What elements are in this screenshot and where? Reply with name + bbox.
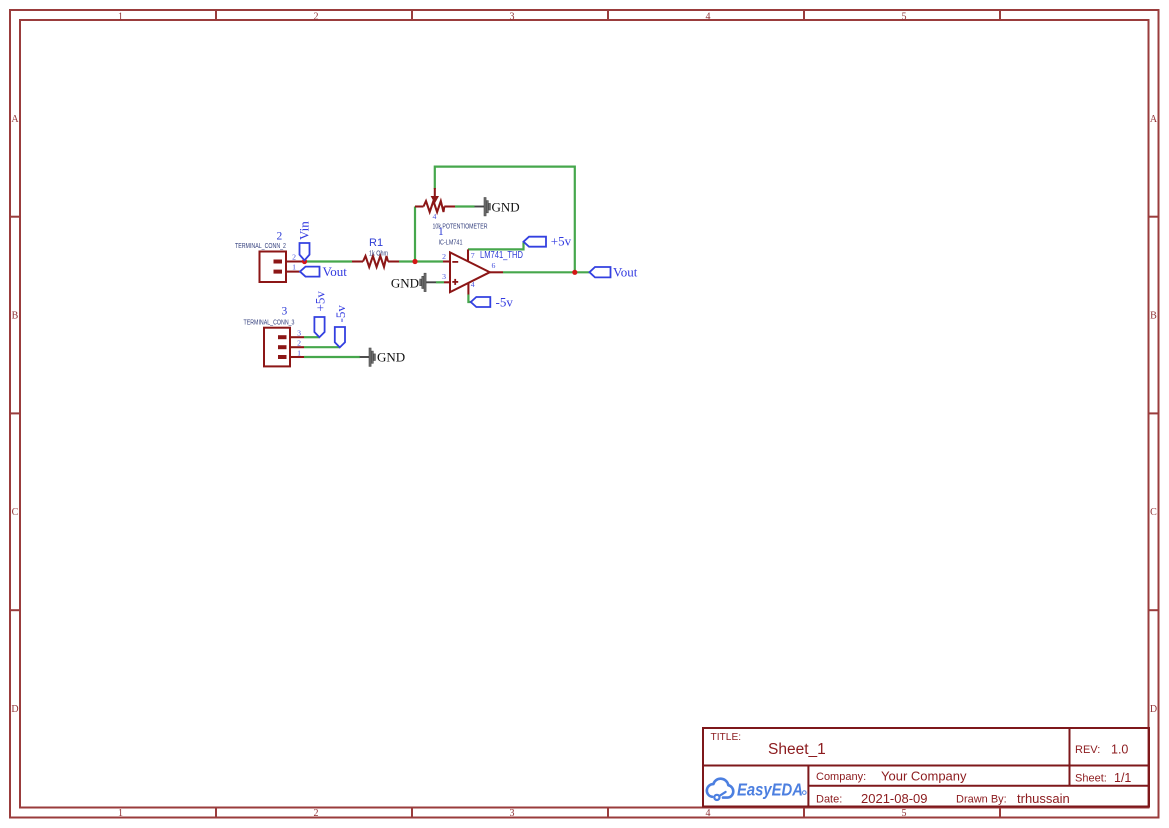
svg-text:6: 6 [492, 261, 496, 270]
svg-text:TERMINAL_CONN_3: TERMINAL_CONN_3 [244, 317, 295, 326]
svg-text:+5v: +5v [312, 291, 327, 312]
svg-text:4: 4 [706, 12, 711, 23]
svg-text:C: C [1150, 507, 1157, 518]
svg-text:Drawn By:: Drawn By: [956, 794, 1007, 806]
svg-text:Company:: Company: [816, 771, 866, 783]
svg-text:2: 2 [292, 252, 296, 261]
svg-text:Vout: Vout [613, 264, 638, 279]
svg-text:1: 1 [438, 226, 444, 238]
svg-text:3: 3 [282, 306, 288, 318]
svg-text:REV:: REV: [1075, 744, 1100, 756]
svg-text:5: 5 [902, 808, 907, 819]
svg-text:1k Ohm: 1k Ohm [369, 249, 388, 258]
svg-text:4: 4 [471, 280, 475, 289]
svg-text:TITLE:: TITLE: [711, 732, 742, 743]
svg-text:A: A [11, 114, 19, 125]
svg-text:1.0: 1.0 [1111, 743, 1128, 757]
svg-text:Your Company: Your Company [881, 769, 967, 784]
svg-text:Vout: Vout [323, 264, 348, 279]
svg-text:3: 3 [297, 329, 301, 338]
svg-text:3: 3 [510, 12, 515, 23]
svg-text:+5v: +5v [551, 234, 572, 249]
svg-text:GND: GND [391, 275, 419, 290]
svg-text:2: 2 [314, 12, 319, 23]
svg-text:3: 3 [442, 272, 446, 281]
svg-text:2021-08-09: 2021-08-09 [861, 791, 928, 806]
svg-text:GND: GND [377, 350, 405, 365]
svg-text:-5v: -5v [496, 295, 514, 310]
svg-text:LM741_THD: LM741_THD [480, 250, 523, 261]
svg-text:Vin: Vin [296, 221, 311, 240]
svg-text:Sheet_1: Sheet_1 [768, 741, 826, 758]
svg-text:4: 4 [706, 808, 711, 819]
svg-text:D: D [1150, 704, 1157, 715]
svg-text:4: 4 [433, 212, 437, 221]
svg-text:2: 2 [442, 252, 446, 261]
svg-text:GND: GND [492, 199, 520, 214]
svg-text:-5v: -5v [333, 305, 348, 323]
svg-text:1: 1 [118, 808, 123, 819]
svg-text:2: 2 [277, 231, 283, 243]
svg-text:A: A [1150, 114, 1158, 125]
svg-text:D: D [11, 704, 18, 715]
svg-text:2: 2 [297, 339, 301, 348]
svg-text:Date:: Date: [816, 794, 842, 806]
svg-text:1: 1 [297, 348, 301, 357]
svg-text:1: 1 [118, 12, 123, 23]
svg-text:C: C [12, 507, 19, 518]
svg-text:2: 2 [314, 808, 319, 819]
svg-text:IC-LM741: IC-LM741 [439, 238, 463, 247]
svg-text:B: B [1150, 311, 1157, 322]
svg-text:3: 3 [510, 808, 515, 819]
svg-text:R1: R1 [369, 237, 383, 249]
svg-text:EasyEDA: EasyEDA [737, 780, 803, 800]
svg-text:7: 7 [471, 251, 475, 260]
svg-text:5: 5 [902, 12, 907, 23]
svg-text:trhussain: trhussain [1017, 791, 1070, 806]
svg-text:Sheet:: Sheet: [1075, 773, 1107, 785]
svg-text:B: B [12, 311, 19, 322]
svg-text:1/1: 1/1 [1114, 771, 1131, 785]
svg-text:1: 1 [292, 263, 296, 272]
